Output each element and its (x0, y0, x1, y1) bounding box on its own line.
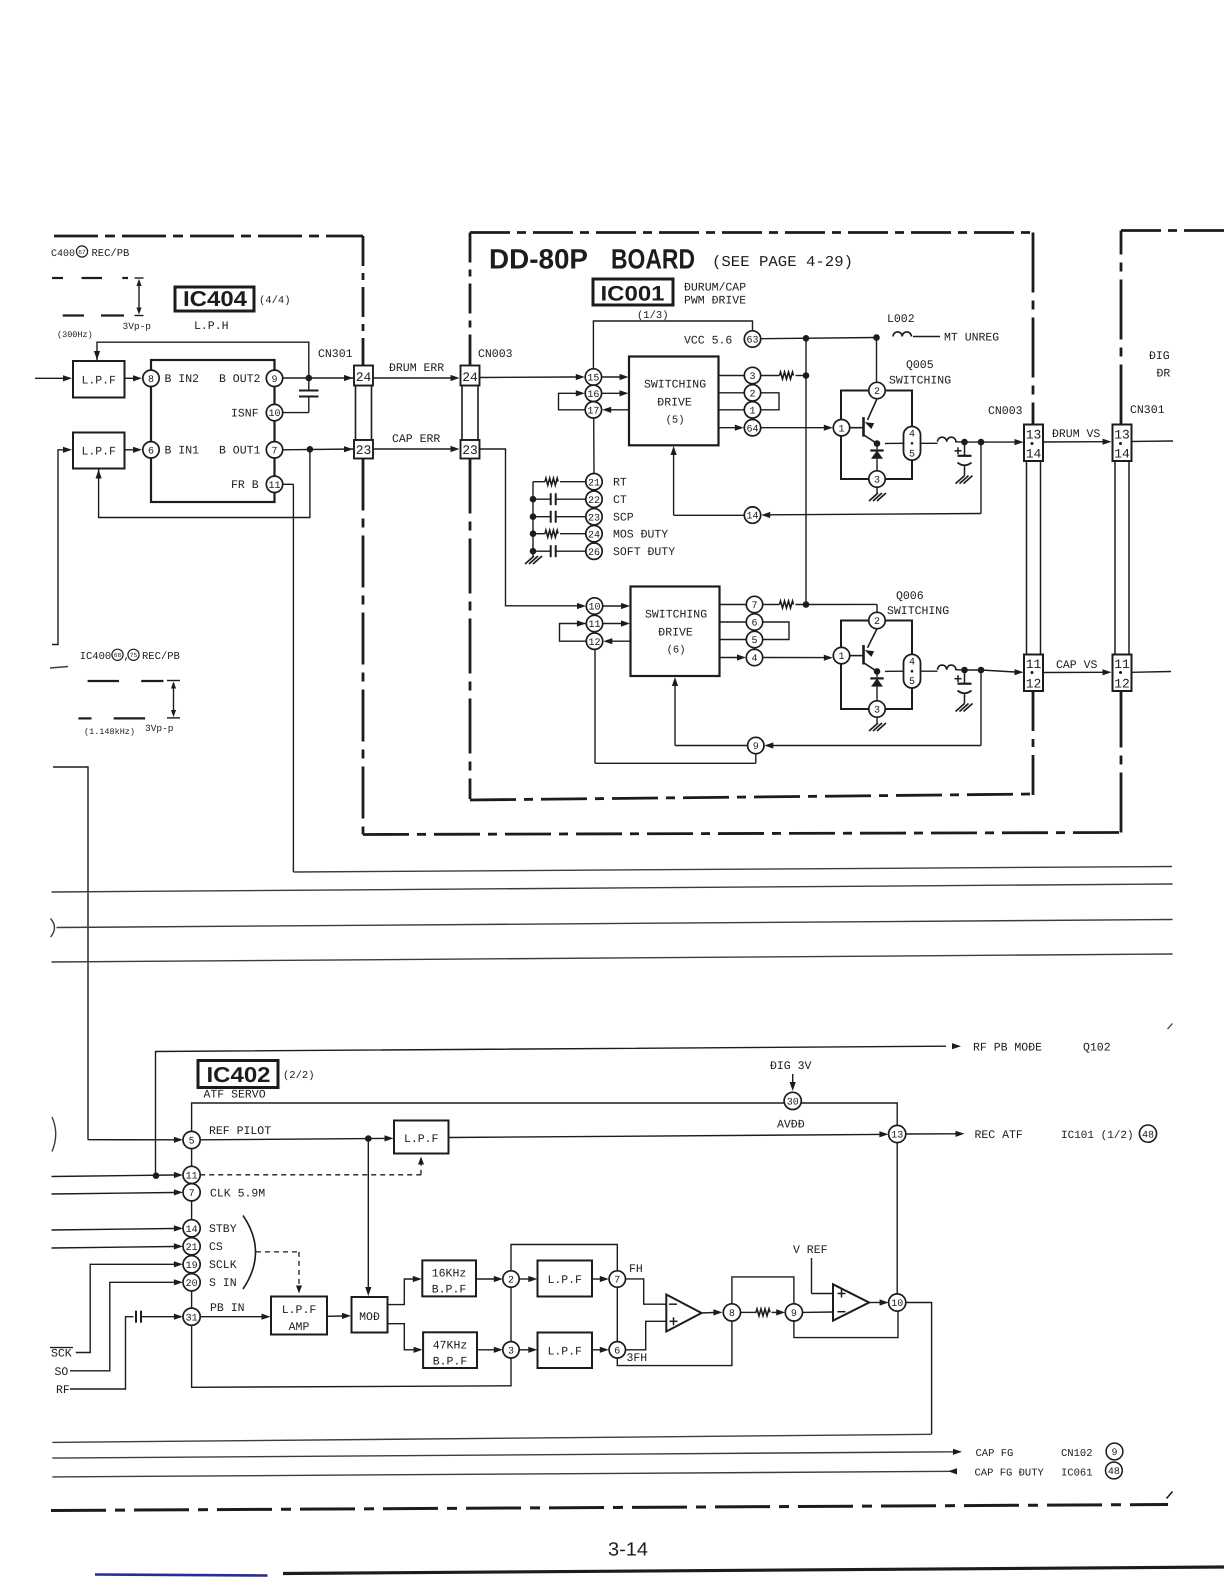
svg-text:CN301: CN301 (318, 348, 353, 361)
svg-text:IC402: IC402 (207, 1063, 271, 1087)
svg-text:48: 48 (1142, 1130, 1154, 1141)
svg-text:2: 2 (508, 1276, 514, 1287)
svg-text:11: 11 (1026, 657, 1042, 672)
svg-text:11: 11 (1114, 657, 1130, 672)
svg-text:24: 24 (356, 370, 372, 385)
svg-text:L.P.F: L.P.F (547, 1346, 582, 1359)
svg-text:B.P.F: B.P.F (432, 1284, 467, 1297)
svg-text:7: 7 (614, 1276, 620, 1287)
svg-text:8: 8 (729, 1309, 735, 1320)
svg-text:CN003: CN003 (478, 348, 513, 361)
svg-text:47KHz: 47KHz (433, 1340, 468, 1353)
svg-text:ATF SERVO: ATF SERVO (204, 1089, 266, 1102)
svg-text:B.P.F: B.P.F (433, 1356, 468, 1369)
svg-text:FR B: FR B (231, 479, 259, 492)
svg-text:REC/PB: REC/PB (92, 248, 130, 260)
svg-text:13: 13 (1114, 428, 1130, 443)
svg-text:FH: FH (629, 1263, 643, 1276)
svg-text:RF: RF (56, 1384, 70, 1397)
svg-text:(SEE PAGE 4-29): (SEE PAGE 4-29) (712, 254, 853, 271)
svg-text:IC404: IC404 (183, 287, 247, 311)
svg-text:AMP: AMP (289, 1321, 310, 1334)
svg-text:CAP FG ĐUTY: CAP FG ĐUTY (975, 1468, 1045, 1480)
svg-text:S IN: S IN (209, 1277, 237, 1290)
svg-text:ĐR: ĐR (1157, 368, 1171, 381)
svg-text:B OUT2: B OUT2 (219, 373, 261, 386)
svg-text:9: 9 (1111, 1448, 1117, 1459)
svg-text:13: 13 (1026, 428, 1042, 443)
svg-text:9: 9 (271, 375, 277, 386)
svg-text:11: 11 (186, 1172, 198, 1183)
svg-text:10: 10 (891, 1299, 903, 1310)
svg-text:21: 21 (186, 1243, 198, 1254)
svg-text:64: 64 (746, 424, 758, 435)
svg-text:RF PB MOĐE: RF PB MOĐE (973, 1042, 1042, 1055)
svg-text:3-14: 3-14 (608, 1540, 648, 1561)
svg-text:CAP FG: CAP FG (976, 1448, 1014, 1460)
svg-text:MOĐ: MOĐ (359, 1311, 380, 1324)
svg-text:12: 12 (588, 638, 600, 649)
svg-text:11: 11 (268, 481, 280, 492)
svg-text:L.P.F: L.P.F (404, 1133, 439, 1146)
svg-text:23: 23 (588, 513, 600, 524)
svg-text:RT: RT (613, 477, 627, 490)
svg-text:10: 10 (588, 603, 600, 614)
svg-text:AVĐĐ: AVĐĐ (777, 1119, 805, 1132)
svg-text:6: 6 (148, 446, 154, 457)
svg-text:1: 1 (838, 424, 844, 435)
svg-text:24: 24 (462, 370, 478, 385)
svg-text:REC ATF: REC ATF (975, 1129, 1023, 1142)
svg-text:DD-80P: DD-80P (489, 244, 588, 275)
svg-text:5: 5 (909, 677, 915, 688)
svg-text:SWITCHING: SWITCHING (645, 609, 707, 622)
svg-text:PB IN: PB IN (210, 1302, 245, 1315)
svg-text:ĐRUM VS: ĐRUM VS (1052, 428, 1100, 441)
svg-text:23: 23 (462, 443, 478, 458)
svg-text:ĐURUM/CAP: ĐURUM/CAP (684, 282, 746, 295)
svg-text:L.P.H: L.P.H (194, 320, 229, 333)
svg-text:STBY: STBY (209, 1223, 237, 1236)
svg-text:CLK 5.9M: CLK 5.9M (210, 1187, 265, 1200)
svg-text:SCP: SCP (613, 512, 634, 525)
svg-text:B IN2: B IN2 (165, 373, 200, 386)
svg-text:3: 3 (874, 706, 880, 717)
svg-text:SO: SO (55, 1366, 69, 1379)
svg-text:SWITCHING: SWITCHING (644, 379, 706, 392)
svg-text:20: 20 (186, 1279, 198, 1290)
svg-text:3: 3 (749, 372, 755, 383)
svg-text:(6): (6) (667, 645, 686, 657)
svg-text:31: 31 (186, 1313, 198, 1324)
svg-text:6: 6 (614, 1346, 620, 1357)
svg-text:67: 67 (78, 249, 86, 256)
svg-text:26: 26 (588, 548, 600, 559)
svg-text:SWITCHING: SWITCHING (887, 605, 949, 618)
svg-text:3: 3 (874, 476, 880, 487)
svg-text:CN102: CN102 (1061, 1448, 1093, 1460)
svg-text:2: 2 (874, 387, 880, 398)
svg-text:5: 5 (189, 1137, 195, 1148)
svg-text:68: 68 (114, 652, 122, 659)
svg-text:(2/2): (2/2) (283, 1070, 315, 1082)
svg-text:(1.148kHz): (1.148kHz) (84, 727, 135, 737)
svg-text:8: 8 (148, 375, 154, 386)
svg-text:IC061: IC061 (1061, 1468, 1093, 1480)
svg-text:ĐRUM ERR: ĐRUM ERR (389, 362, 444, 375)
svg-text:ĐIG 3V: ĐIG 3V (770, 1060, 812, 1073)
svg-text:B OUT1: B OUT1 (219, 445, 261, 458)
svg-text:3: 3 (508, 1346, 514, 1357)
svg-text:CN301: CN301 (1130, 404, 1165, 417)
svg-text:4: 4 (909, 430, 915, 441)
svg-text:2: 2 (749, 389, 755, 400)
svg-text:IC001: IC001 (601, 283, 665, 306)
svg-text:9: 9 (753, 742, 759, 753)
svg-text:CAP VS: CAP VS (1056, 659, 1098, 672)
svg-text:17: 17 (587, 406, 599, 417)
svg-text:L.P.F: L.P.F (81, 375, 116, 388)
svg-text:14: 14 (1026, 447, 1042, 462)
svg-text:6: 6 (751, 619, 757, 630)
svg-text:22: 22 (588, 496, 600, 507)
svg-text:7: 7 (751, 601, 757, 612)
svg-text:5: 5 (751, 636, 757, 647)
svg-text:14: 14 (746, 512, 758, 523)
svg-text:3Vp-p: 3Vp-p (123, 321, 152, 332)
svg-text:1: 1 (838, 652, 844, 663)
svg-text:CAP ERR: CAP ERR (392, 433, 440, 446)
svg-text:48: 48 (1108, 1467, 1120, 1478)
svg-text:Q005: Q005 (906, 359, 934, 372)
svg-text:ĐIG: ĐIG (1149, 350, 1170, 363)
svg-text:Q102: Q102 (1083, 1042, 1111, 1055)
svg-text:75: 75 (130, 652, 138, 659)
svg-text:7: 7 (189, 1189, 195, 1200)
svg-text:(4/4): (4/4) (259, 295, 291, 307)
svg-text:CT: CT (613, 494, 627, 507)
svg-text:15: 15 (587, 374, 599, 385)
svg-text:SCK: SCK (51, 1348, 72, 1361)
svg-text:V REF: V REF (793, 1244, 828, 1257)
svg-text:21: 21 (588, 478, 600, 489)
svg-text:(300Hz): (300Hz) (57, 330, 93, 340)
svg-text:63: 63 (746, 336, 758, 347)
svg-text:13: 13 (891, 1131, 903, 1142)
svg-text:REF PILOT: REF PILOT (209, 1125, 271, 1138)
svg-text:SOFT ĐUTY: SOFT ĐUTY (613, 546, 675, 559)
svg-text:11: 11 (588, 620, 600, 631)
svg-text:ĐRIVE: ĐRIVE (657, 397, 692, 410)
svg-text:4: 4 (751, 654, 757, 665)
svg-text:SWITCHING: SWITCHING (889, 375, 951, 388)
svg-text:19: 19 (186, 1261, 198, 1272)
svg-text:16KHz: 16KHz (432, 1268, 467, 1281)
svg-text:ISNF: ISNF (231, 408, 259, 421)
svg-text:CN003: CN003 (988, 405, 1023, 418)
svg-text:9: 9 (791, 1309, 797, 1320)
svg-text:REC/PB: REC/PB (142, 651, 180, 663)
svg-text:BOARD: BOARD (611, 244, 695, 275)
svg-text:L.P.F: L.P.F (282, 1304, 317, 1317)
svg-text:ĐRIVE: ĐRIVE (658, 627, 693, 640)
svg-text:B IN1: B IN1 (165, 445, 200, 458)
svg-text:10: 10 (268, 409, 280, 420)
svg-text:L002: L002 (887, 313, 915, 326)
svg-text:IC101 (1/2): IC101 (1/2) (1061, 1130, 1134, 1142)
svg-text:(1/3): (1/3) (637, 310, 669, 322)
svg-text:2: 2 (874, 617, 880, 628)
svg-text:IC400: IC400 (80, 651, 112, 663)
svg-text:Q006: Q006 (896, 590, 924, 603)
svg-text:14: 14 (186, 1225, 198, 1236)
svg-text:VCC 5.6: VCC 5.6 (684, 335, 732, 348)
svg-text:5: 5 (909, 449, 915, 460)
svg-text:3Vp-p: 3Vp-p (145, 723, 174, 734)
svg-text:30: 30 (787, 1098, 799, 1109)
svg-text:L.P.F: L.P.F (81, 446, 116, 459)
svg-text:1: 1 (749, 406, 755, 417)
svg-text:12: 12 (1026, 677, 1042, 692)
svg-text:(5): (5) (666, 415, 685, 427)
svg-text:14: 14 (1114, 447, 1130, 462)
svg-text:PWM ĐRIVE: PWM ĐRIVE (684, 295, 746, 308)
svg-text:23: 23 (356, 443, 372, 458)
svg-text:16: 16 (587, 390, 599, 401)
svg-text:12: 12 (1114, 677, 1130, 692)
svg-text:3FH: 3FH (627, 1352, 648, 1365)
svg-text:CS: CS (209, 1241, 223, 1254)
svg-text:7: 7 (271, 446, 277, 457)
svg-text:C400: C400 (51, 249, 75, 260)
svg-text:L.P.F: L.P.F (547, 1274, 582, 1287)
svg-text:MT UNREG: MT UNREG (944, 332, 999, 345)
svg-text:24: 24 (588, 530, 600, 541)
svg-text:SCLK: SCLK (209, 1259, 237, 1272)
svg-text:4: 4 (909, 657, 915, 668)
svg-text:MOS ĐUTY: MOS ĐUTY (613, 529, 668, 542)
